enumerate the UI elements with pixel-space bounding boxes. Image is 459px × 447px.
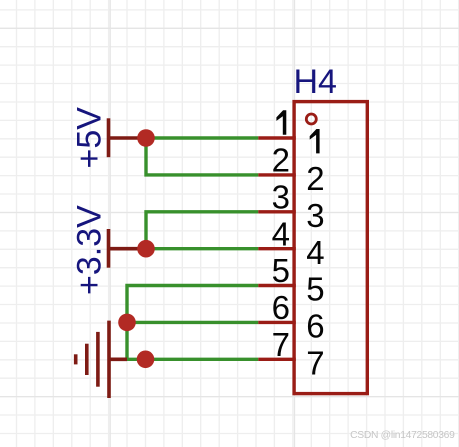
svg-text:6: 6	[306, 308, 324, 345]
ground symbol	[76, 321, 127, 398]
power +5V symbol	[109, 118, 142, 157]
pin 1 number	[276, 110, 286, 134]
svg-text:+5V: +5V	[71, 107, 109, 169]
svg-text:2: 2	[272, 142, 290, 179]
pin 1 label inside	[310, 129, 320, 153]
wire net +3.3V to pin 3	[146, 212, 258, 249]
pin 4 stub	[258, 247, 296, 250]
wire net GND to pin 7	[127, 358, 258, 361]
svg-text:3: 3	[306, 197, 324, 234]
svg-text:7: 7	[306, 345, 324, 382]
wire net GND to pin 6	[127, 321, 258, 324]
pin 1 polarity circle	[306, 114, 316, 124]
wire net +5V to pin 1	[146, 136, 258, 139]
junction at +5V node	[137, 129, 155, 147]
svg-text:2: 2	[306, 160, 324, 197]
svg-text:3: 3	[272, 179, 290, 216]
svg-text:4: 4	[272, 215, 290, 252]
pin 3 stub	[258, 210, 296, 213]
svg-text:5: 5	[306, 271, 324, 308]
wire net +5V to pin 2	[146, 138, 258, 175]
svg-text:+3.3V: +3.3V	[71, 205, 109, 295]
svg-text:CSDN @lin1472580369: CSDN @lin1472580369	[350, 430, 455, 441]
svg-text:7: 7	[272, 326, 290, 363]
pin 6 stub	[258, 321, 296, 324]
wire net GND to pin 5	[127, 286, 258, 360]
svg-text:5: 5	[272, 252, 290, 289]
connector H4 body	[294, 102, 367, 394]
junction at GND node pin 6	[118, 314, 136, 332]
svg-text:6: 6	[272, 289, 290, 326]
power +3.3V symbol	[109, 229, 142, 268]
pin 2 stub	[258, 173, 296, 176]
svg-text:4: 4	[306, 234, 324, 271]
pin 5 stub	[258, 284, 296, 287]
pin 1 stub	[258, 136, 296, 139]
junction at GND node pin 7	[137, 351, 155, 369]
wire net +3.3V to pin 4	[146, 247, 258, 250]
junction at +3.3V node	[137, 240, 155, 258]
svg-text:H4: H4	[294, 63, 337, 101]
pin 7 stub	[258, 358, 296, 361]
